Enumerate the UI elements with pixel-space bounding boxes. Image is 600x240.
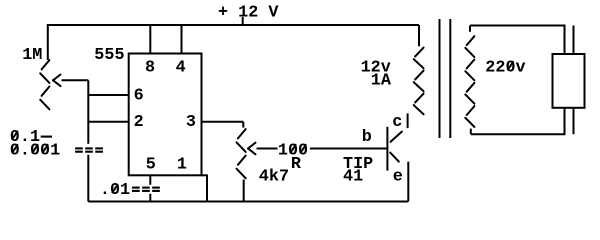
svg-text:3: 3 [186, 113, 196, 132]
wire pin 3 output [202, 121, 244, 123]
wire +12V top rail [48, 24, 419, 26]
potentiometer 1M body [42, 60, 50, 69]
svg-text:b: b [362, 128, 372, 147]
wire wiper to 100R [257, 148, 278, 150]
zero slashes for 0.001 [12, 144, 18, 153]
load lamp body [553, 54, 585, 108]
svg-text:+ 12 V: + 12 V [218, 3, 279, 22]
wire to pin 2 [88, 121, 128, 123]
wire +12V supply tick [242, 17, 244, 25]
transformer T1 primary winding [415, 48, 424, 57]
svg-text:c: c [392, 113, 402, 132]
transistor emitter diagonal [390, 153, 399, 162]
wire secondary top stub [469, 26, 471, 32]
wire node bus upper [87, 80, 89, 144]
label dash 0.1- [41, 136, 52, 138]
wire emitter to ground [407, 162, 409, 202]
svg-text:555: 555 [94, 46, 124, 65]
zero slash for .01 [112, 184, 118, 193]
wire secondary bottom to load [471, 133, 566, 135]
wire pin 1 to ground [206, 175, 208, 201]
wire 1M top lead [47, 24, 49, 60]
wire to pin 6 [88, 94, 128, 96]
transformer core line right [449, 19, 451, 138]
svg-text:1: 1 [177, 155, 187, 174]
svg-text:.01: .01 [100, 181, 130, 200]
transformer T1 secondary winding [467, 36, 475, 45]
svg-text:220v: 220v [485, 58, 525, 77]
zero slashes for 100 [290, 144, 296, 153]
wire load lead bottom-left [564, 108, 566, 134]
wire node bus lower [87, 155, 89, 202]
wire load lead top-left [564, 26, 566, 55]
wire rail to primary [418, 25, 420, 46]
svg-text:4k7: 4k7 [259, 168, 289, 187]
capacitor C2 .01 plates [132, 187, 140, 189]
wire .01 cap to ground [149, 194, 151, 202]
transformer core line left [439, 19, 441, 138]
wire secondary bottom stub [470, 129, 472, 135]
wire 100R to base [310, 148, 386, 150]
svg-text:2: 2 [134, 113, 144, 132]
svg-text:R: R [291, 155, 302, 174]
svg-text:8: 8 [145, 59, 155, 78]
wire 1M wiper to node [62, 79, 89, 81]
zero slash for 0.1 [12, 131, 18, 140]
svg-text:1A: 1A [371, 71, 392, 90]
wire load lead bottom-right [573, 108, 575, 134]
wire pin 4 to +12V [181, 25, 183, 54]
wire box bottom extension [202, 174, 208, 176]
wire pin 5 lead [149, 175, 151, 185]
svg-text:5: 5 [146, 155, 156, 174]
potentiometer 4k7 wiper arrow [248, 143, 256, 149]
svg-text:1M: 1M [22, 46, 42, 65]
svg-text:6: 6 [134, 86, 144, 105]
wire collector lead [407, 113, 409, 128]
potentiometer 1M wiper arrow [53, 75, 61, 81]
wire pin 8 to +12V [149, 25, 151, 54]
transistor TIP41 Q1 base bar [386, 127, 388, 171]
svg-text:4: 4 [176, 59, 186, 78]
svg-text:e: e [393, 168, 403, 187]
zero slash for 220v [508, 61, 514, 70]
wire secondary top to load [470, 25, 566, 27]
wire 4k7 bottom to ground [243, 180, 245, 202]
transistor collector diagonal [391, 132, 402, 142]
svg-text:41: 41 [343, 168, 363, 187]
potentiometer 4k7 body [238, 129, 246, 138]
wire pin3 drop [242, 122, 244, 128]
wire load lead top-right [573, 26, 575, 55]
capacitor C1 0.1-0.001 plates [75, 147, 83, 149]
wire ground bottom rail [88, 201, 408, 203]
IC 555 timer U1 body [129, 54, 202, 176]
